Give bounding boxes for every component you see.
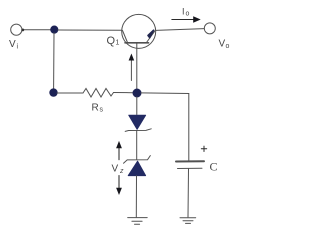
wire capacitor to ground	[187, 169, 190, 217]
ground under capacitor	[180, 218, 196, 224]
Io arrowhead	[193, 16, 201, 23]
wire resistor Rs to node C	[114, 92, 134, 94]
wire node C to zener D1	[136, 97, 138, 115]
transistor Q1 collector diagonal	[123, 31, 128, 43]
transistor Q1 emitter arrowhead	[148, 30, 154, 37]
svg-text:o: o	[226, 43, 230, 50]
wire input to node A	[22, 29, 51, 31]
svg-text:Q: Q	[107, 35, 116, 47]
transistor Q1 emitter diagonal	[147, 31, 156, 43]
wire node A to transistor collector	[58, 29, 122, 31]
Vz up arrow	[118, 147, 120, 160]
svg-text:C: C	[210, 160, 218, 174]
wire node A down to node B	[53, 33, 55, 89]
resistor Rs zigzag	[83, 89, 114, 98]
node B	[50, 89, 57, 96]
zener diode D2 cathode bar	[124, 156, 151, 164]
wire D2 to ground	[135, 176, 137, 217]
svg-text:s: s	[100, 107, 104, 114]
wire node C to capacitor branch	[141, 92, 189, 95]
svg-text:V: V	[112, 164, 119, 175]
transistor Q1 base lead wire	[136, 43, 138, 90]
svg-text:1: 1	[116, 40, 120, 47]
capacitor plus sign	[201, 146, 206, 151]
svg-text:I: I	[182, 7, 185, 17]
ground under zeners	[128, 218, 148, 225]
node A	[51, 26, 58, 33]
svg-text:o: o	[186, 11, 190, 18]
Vz down arrow	[118, 176, 120, 190]
output terminal Vo	[204, 23, 215, 34]
junction blob at input terminal	[21, 29, 24, 32]
capacitor C top plate	[176, 160, 204, 162]
zener diode D1 triangle	[129, 115, 146, 129]
transistor Q1 body circle	[122, 14, 156, 48]
wire capacitor branch down	[188, 94, 190, 161]
svg-text:R: R	[92, 103, 99, 114]
svg-text:V: V	[9, 39, 16, 50]
svg-text:z: z	[119, 168, 124, 175]
base current arrow shaft	[130, 58, 132, 81]
svg-text:V: V	[219, 39, 226, 50]
input terminal Vi	[11, 24, 22, 35]
wire node B to resistor Rs	[57, 92, 83, 94]
Io arrow shaft	[172, 19, 194, 21]
node C junction dot	[133, 89, 141, 97]
emitter wire to output terminal	[156, 29, 205, 31]
capacitor C bottom plate	[178, 167, 203, 169]
zener diode D2 triangle	[128, 161, 145, 175]
transistor Q1 base bar	[125, 42, 149, 44]
label Vi	[9, 7, 230, 176]
base current arrowhead	[129, 54, 135, 61]
wire D1 to D2	[136, 131, 138, 160]
zener diode D1 cathode bar	[125, 129, 151, 132]
